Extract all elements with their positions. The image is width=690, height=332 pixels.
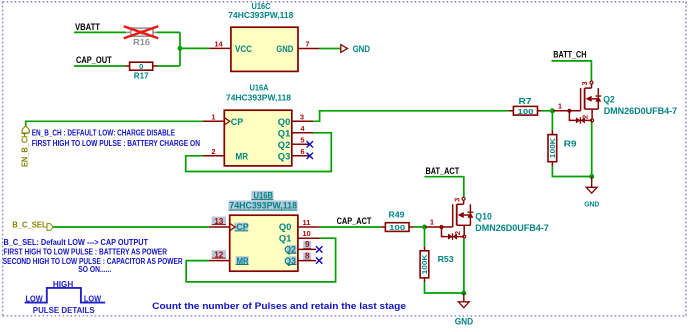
svg-text:2: 2 bbox=[453, 231, 462, 235]
pin 12 bbox=[209, 250, 230, 260]
svg-text:Q1: Q1 bbox=[278, 129, 291, 139]
svg-text:BATT_CH: BATT_CH bbox=[553, 49, 586, 59]
clock triangle bbox=[230, 223, 236, 230]
junction R7/R9/Q2 gate bbox=[550, 108, 555, 113]
svg-text:3: 3 bbox=[580, 82, 589, 86]
wire U16B MR feedback loop bbox=[186, 238, 335, 282]
svg-text:Q1: Q1 bbox=[279, 233, 292, 243]
svg-text:3: 3 bbox=[452, 198, 461, 202]
wire vertical joining VBATT/CAP_OUT rows bbox=[179, 32, 181, 66]
svg-text:R17: R17 bbox=[134, 70, 149, 80]
pin 3 bbox=[292, 112, 313, 121]
svg-text:FIRST HIGH TO LOW PULSE : BATT: FIRST HIGH TO LOW PULSE : BATTERY CHARGE… bbox=[32, 139, 200, 148]
GND power symbol (right-pointing) bbox=[341, 44, 371, 54]
transistor Q2 DMN26D0UFB4-7 bbox=[553, 81, 601, 124]
svg-text:Q0: Q0 bbox=[279, 222, 292, 232]
svg-text:EN_B_CH : DEFAULT LOW: CHARGE: EN_B_CH : DEFAULT LOW: CHARGE DISABLE bbox=[32, 128, 176, 137]
IC U16C 74HC393PW power unit body bbox=[228, 1, 298, 72]
transistor Q10 DMN26D0UFB4-7 bbox=[425, 197, 473, 240]
junction Q2 source / R9 / GND bbox=[589, 174, 594, 179]
svg-text:U16A: U16A bbox=[250, 83, 269, 93]
svg-text:Q2: Q2 bbox=[603, 94, 615, 104]
pin 7 bbox=[298, 40, 320, 49]
resistor R53 (vertical) bbox=[420, 247, 454, 282]
ground under Q10 bbox=[455, 293, 474, 326]
resistor R49 bbox=[381, 209, 414, 232]
wire CAP_OUT to R17 bbox=[74, 65, 125, 67]
svg-text:R9: R9 bbox=[564, 139, 577, 149]
pin 2 bbox=[203, 147, 224, 156]
svg-text:2: 2 bbox=[211, 147, 215, 156]
svg-text:VBATT: VBATT bbox=[75, 22, 101, 32]
svg-text:100: 100 bbox=[389, 223, 405, 232]
wire U16A MR feedback loop bbox=[186, 133, 332, 172]
pin 14 bbox=[209, 40, 231, 49]
svg-text:11: 11 bbox=[303, 218, 311, 227]
wire R53 to bottom rail bbox=[425, 282, 464, 293]
svg-text:Q3: Q3 bbox=[278, 152, 291, 162]
svg-text:Q2: Q2 bbox=[278, 140, 291, 150]
no-connect X pin 8 bbox=[316, 257, 322, 263]
svg-text:100K: 100K bbox=[548, 138, 557, 159]
svg-text:10: 10 bbox=[302, 229, 310, 238]
svg-text:DMN26D0UFB4-7: DMN26D0UFB4-7 bbox=[604, 106, 678, 116]
svg-text:Q2: Q2 bbox=[284, 245, 296, 255]
wire junction to U16C pin 14 bbox=[180, 47, 209, 49]
svg-text:100K: 100K bbox=[420, 254, 429, 275]
wire Q10 source down bbox=[463, 239, 465, 293]
wire U16B Q0 / CAP_ACT to R49 bbox=[320, 226, 381, 228]
resistor R17 bbox=[125, 62, 157, 80]
svg-text:HIGH: HIGH bbox=[53, 280, 74, 289]
no-connect X pin 5 bbox=[307, 141, 313, 147]
wire VBATT to R16 bbox=[74, 31, 126, 33]
svg-text:Q0: Q0 bbox=[278, 117, 291, 127]
svg-text:12: 12 bbox=[214, 251, 224, 260]
svg-text:LOW: LOW bbox=[26, 294, 44, 303]
svg-text:GND: GND bbox=[276, 44, 293, 54]
pin 8 bbox=[298, 251, 316, 260]
wire junction to R9 bbox=[551, 111, 553, 131]
svg-text:14: 14 bbox=[214, 40, 223, 49]
wire R9 to bottom rail bbox=[552, 166, 591, 177]
junction VBATT/CAP_OUT bbox=[178, 46, 183, 51]
svg-text:CP: CP bbox=[231, 117, 244, 127]
svg-text:CAP_OUT: CAP_OUT bbox=[76, 55, 112, 65]
pin 4 bbox=[292, 124, 313, 133]
svg-text:1: 1 bbox=[211, 112, 215, 121]
wire junction to R53 bbox=[424, 227, 426, 247]
svg-text:74HC393PW,118: 74HC393PW,118 bbox=[228, 10, 293, 20]
svg-text:8: 8 bbox=[305, 251, 310, 260]
svg-text:GND: GND bbox=[584, 199, 599, 208]
svg-text:7: 7 bbox=[305, 40, 309, 49]
no-connect X pin 9 bbox=[316, 246, 322, 252]
svg-text:9: 9 bbox=[305, 240, 310, 249]
ground under Q2 bbox=[584, 177, 599, 209]
svg-text:CP: CP bbox=[236, 222, 249, 232]
svg-text:GND: GND bbox=[353, 44, 371, 54]
resistor R9 (vertical) bbox=[548, 130, 577, 166]
svg-text:GND: GND bbox=[455, 316, 474, 326]
junction R49/R53/Q10 gate bbox=[422, 225, 427, 230]
svg-text:Q3: Q3 bbox=[284, 256, 296, 266]
svg-text:2: 2 bbox=[581, 115, 590, 119]
svg-text:74HC393PW,118: 74HC393PW,118 bbox=[229, 201, 297, 211]
svg-text:1: 1 bbox=[430, 218, 434, 227]
wire BAT_ACT down to Q10 drain bbox=[424, 177, 463, 198]
wire U16C pin 7 to GND symbol bbox=[320, 48, 341, 50]
wire B_C_SEL to U16B pin 13 bbox=[53, 226, 209, 228]
no-connect X pin 6 bbox=[307, 153, 313, 159]
pin 13 bbox=[209, 217, 230, 227]
svg-text:5: 5 bbox=[300, 135, 304, 144]
svg-text:EN_B_CH: EN_B_CH bbox=[21, 132, 30, 167]
svg-text:Count the number of Pulses and: Count the number of Pulses and retain th… bbox=[152, 301, 406, 311]
hierarchical label B_C_SEL bbox=[12, 220, 53, 230]
svg-text:B_C_SEL: Default LOW ---> CAP: B_C_SEL: Default LOW ---> CAP OUTPUT bbox=[4, 238, 149, 247]
svg-text:DMN26D0UFB4-7: DMN26D0UFB4-7 bbox=[475, 223, 549, 233]
svg-text:BAT_ACT: BAT_ACT bbox=[426, 166, 460, 176]
hierarchical label EN_B_CH bbox=[21, 126, 30, 167]
svg-text:R53: R53 bbox=[438, 254, 454, 264]
svg-text:R49: R49 bbox=[389, 209, 405, 219]
svg-text:R16: R16 bbox=[133, 37, 150, 47]
counter U16A body bbox=[224, 83, 291, 166]
wire R16 to vertical bbox=[157, 31, 181, 33]
wire R49 to junction bbox=[414, 226, 425, 228]
svg-text:SO ON......: SO ON...... bbox=[78, 265, 111, 274]
wire EN_B_CH to U16A pin 1 bbox=[26, 121, 203, 126]
wire BATT_CH down to Q2 drain bbox=[552, 61, 592, 81]
pin 10 bbox=[298, 229, 320, 238]
svg-text:6: 6 bbox=[300, 147, 304, 156]
svg-text:74HC393PW,118: 74HC393PW,118 bbox=[226, 93, 291, 103]
svg-text:LOW: LOW bbox=[84, 294, 102, 303]
pin 5 bbox=[292, 135, 310, 144]
svg-text:FIRST HIGH TO LOW PULSE : BATT: FIRST HIGH TO LOW PULSE : BATTERY AS POW… bbox=[4, 248, 168, 257]
wire R7 to junction bbox=[541, 110, 552, 112]
resistor R16 (DNP, greyed, crossed out) bbox=[124, 26, 159, 47]
wire Q2 source down bbox=[591, 121, 593, 177]
wire U16A Q0 to R7 bbox=[313, 111, 509, 122]
wire R17 to vertical bbox=[158, 65, 180, 67]
svg-text:MR: MR bbox=[236, 152, 249, 162]
svg-text:R7: R7 bbox=[519, 96, 532, 106]
svg-text:VCC: VCC bbox=[235, 44, 252, 54]
svg-text:100: 100 bbox=[518, 107, 534, 116]
resistor R7 bbox=[509, 96, 541, 116]
clock triangle bbox=[224, 118, 230, 125]
svg-text:Q10: Q10 bbox=[475, 211, 492, 221]
pulse waveform bbox=[25, 288, 106, 303]
pin 1 bbox=[203, 112, 224, 121]
svg-text:B_C_SEL: B_C_SEL bbox=[12, 220, 47, 229]
pin 11 bbox=[298, 218, 320, 227]
svg-text:MR: MR bbox=[237, 256, 249, 266]
svg-text:U16B: U16B bbox=[254, 191, 274, 201]
counter U16B body bbox=[229, 191, 298, 272]
svg-text:1: 1 bbox=[558, 102, 562, 111]
svg-text:PULSE DETAILS: PULSE DETAILS bbox=[33, 305, 95, 315]
pin 6 bbox=[292, 147, 310, 156]
svg-text:13: 13 bbox=[214, 217, 224, 226]
svg-text:CAP_ACT: CAP_ACT bbox=[337, 216, 372, 226]
junction Q10 source / R53 / GND bbox=[461, 291, 466, 296]
svg-text:3: 3 bbox=[300, 112, 304, 121]
pin 9 bbox=[298, 240, 316, 249]
